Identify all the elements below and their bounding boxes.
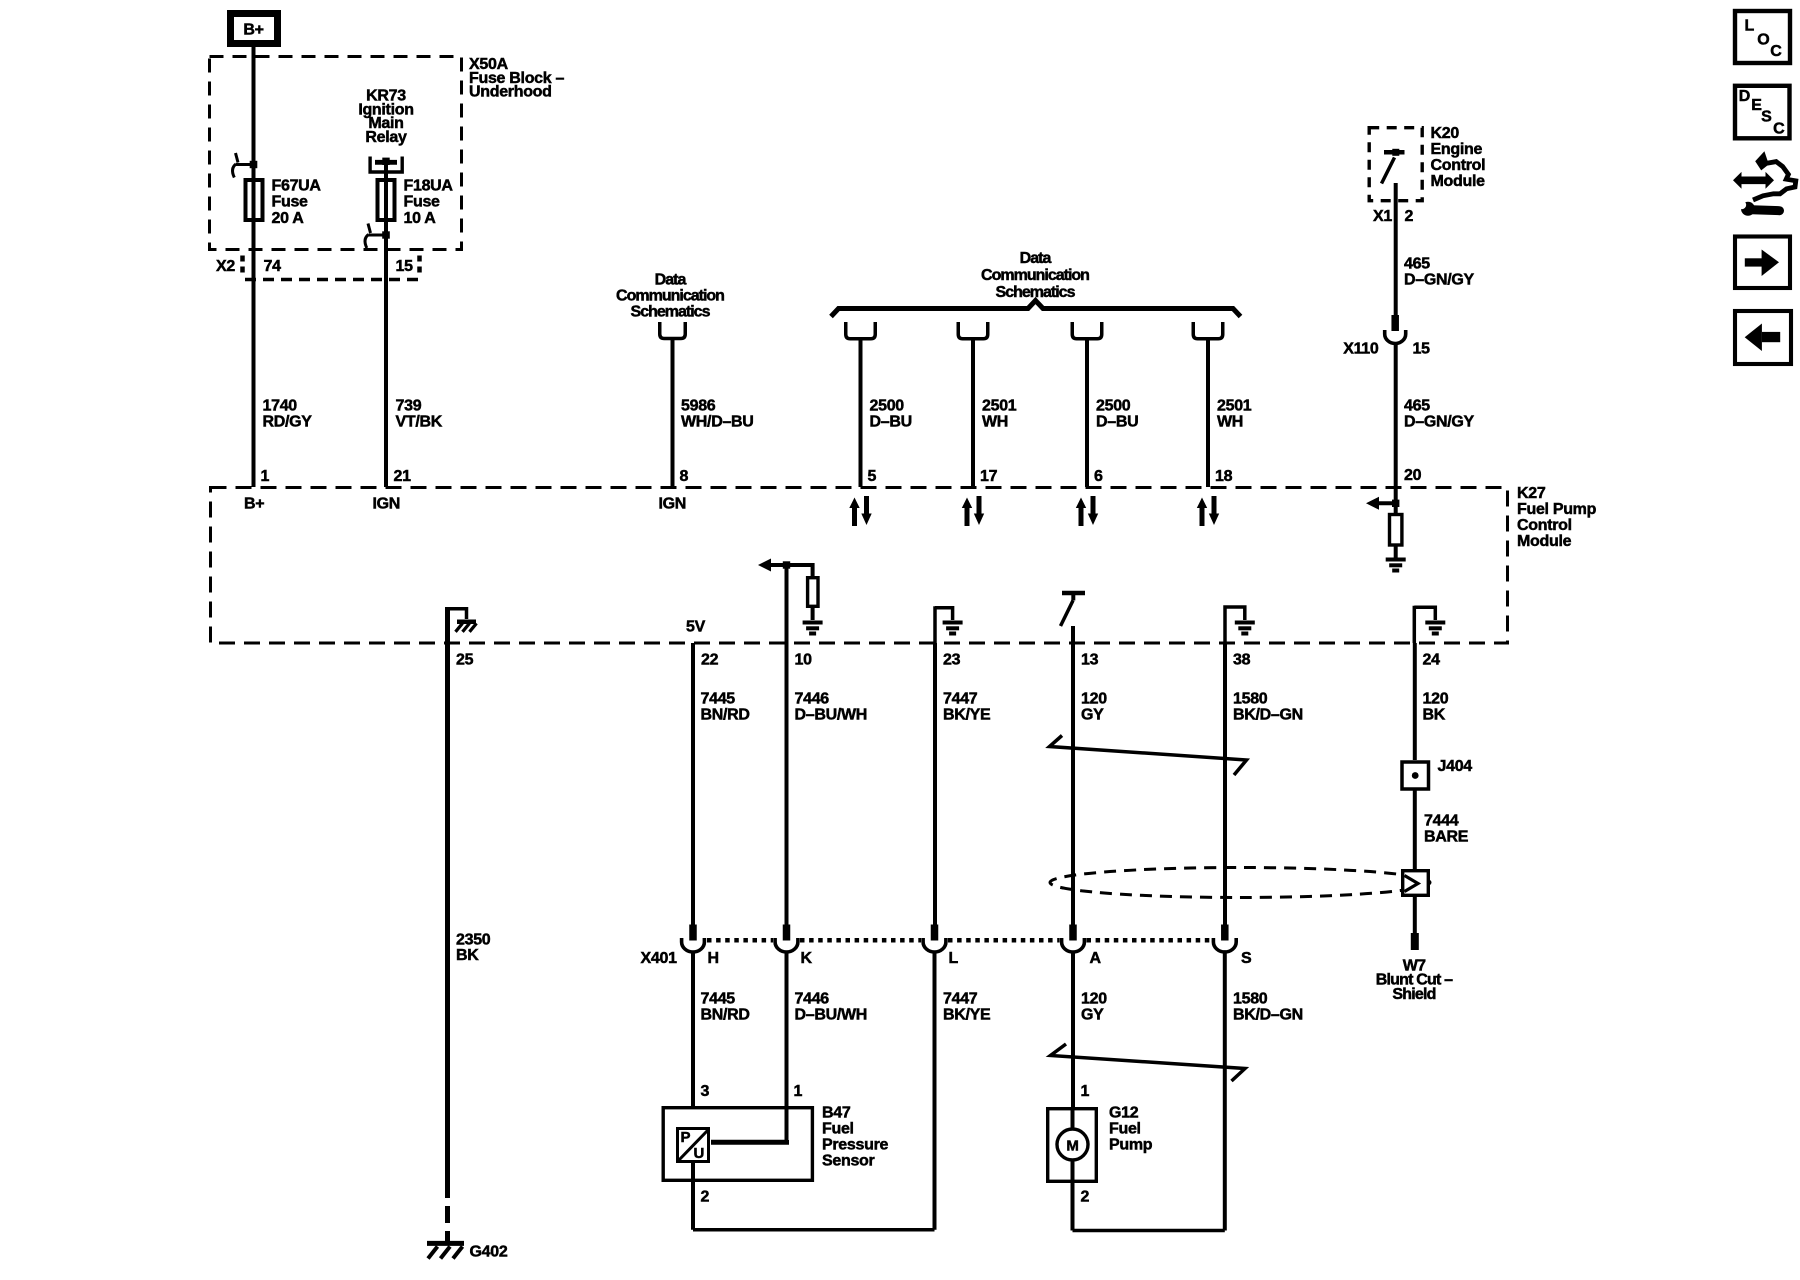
svg-text:WH: WH [982,413,1008,430]
svg-text:U: U [694,1145,705,1162]
svg-text:7444: 7444 [1424,813,1459,830]
svg-text:Module: Module [1431,173,1486,190]
svg-text:K27: K27 [1517,485,1546,502]
svg-text:X1: X1 [1373,208,1392,225]
svg-text:B+: B+ [244,496,264,513]
fuse F67UA 20A [246,180,263,220]
wire 5986 WH/D-BU [671,339,675,488]
svg-text:2350: 2350 [456,932,491,949]
svg-text:2500: 2500 [1096,397,1131,414]
svg-text:BK/YE: BK/YE [943,706,991,723]
motor symbol M [1057,1129,1088,1160]
svg-text:1740: 1740 [263,397,298,414]
module K20 dashed box [1369,128,1422,201]
svg-text:120: 120 [1081,690,1107,707]
svg-text:Communication: Communication [616,288,724,305]
wire sensor pin 2 [691,1163,695,1230]
connector X401 dotted line [707,938,773,943]
wire 7446 D-BU/WH lower [785,951,789,1142]
svg-text:7447: 7447 [943,990,978,1007]
module K27 dashed box [211,488,1508,644]
connector X401 cavity H socket [682,938,705,952]
svg-text:Pressure: Pressure [822,1137,888,1154]
svg-text:2501: 2501 [1217,397,1252,414]
svg-text:2: 2 [701,1188,710,1205]
svg-text:8: 8 [680,468,689,485]
svg-text:WH/D–BU: WH/D–BU [681,413,754,430]
bidirectional arrows at pin 17 [962,498,972,527]
battery feed B+ terminal box [231,14,278,44]
svg-text:X2: X2 [216,258,235,275]
internal 5V arrow at pin 10 [758,559,771,572]
junction dot at pin 10 internal [783,561,790,568]
svg-text:WH: WH [1217,413,1243,430]
svg-text:B+: B+ [243,22,263,39]
shield ellipse (drain wire) [1050,868,1430,898]
wire 7445 BN/RD upper [691,643,695,925]
wire resistor to ground at pin 10 [811,607,815,621]
svg-text:15: 15 [1413,341,1431,358]
wire 7446 D-BU/WH upper [785,565,789,925]
svg-text:7446: 7446 [795,690,830,707]
connector to data schematics #4 [1193,322,1223,339]
internal resistor at pin 20 [1390,515,1402,546]
wire bottom B47 to 7447 [693,1228,935,1232]
svg-text:38: 38 [1233,651,1251,668]
svg-text:D–GN/GY: D–GN/GY [1404,272,1475,289]
svg-text:Fuel Pump: Fuel Pump [1517,501,1597,518]
connector X401 cavity L pin [931,925,939,941]
svg-text:P: P [681,1129,691,1146]
connector to data schematics #2 [958,322,988,339]
svg-text:B47: B47 [822,1105,851,1122]
bidirectional arrows at pin 5 [849,498,859,527]
svg-text:Underhood: Underhood [469,84,552,101]
svg-text:17: 17 [980,468,998,485]
svg-text:739: 739 [396,397,422,414]
svg-text:D–BU/WH: D–BU/WH [795,706,868,723]
svg-text:L: L [949,950,959,967]
icon box LOC [1735,11,1790,63]
svg-text:BN/RD: BN/RD [701,1006,750,1023]
svg-text:A: A [1090,950,1102,967]
svg-text:10 A: 10 A [404,210,437,227]
earth ground at pin 23 [943,621,963,625]
wire resistor to ground (K27) [1394,545,1398,558]
svg-text:S: S [1761,108,1772,125]
wire B+ feed (circuit 1740) [252,47,256,487]
icon box next arrow [1735,237,1790,289]
svg-text:18: 18 [1215,468,1233,485]
svg-text:7447: 7447 [943,690,978,707]
connector X2 bottom dashed line [245,278,420,282]
switch contact inside K20 [1384,150,1405,155]
internal wire pin1 to sensor [711,1140,787,1142]
svg-text:Fuse: Fuse [404,194,441,211]
svg-text:VT/BK: VT/BK [396,413,443,430]
connector X401 cavity H pin [689,925,697,941]
wire 465 D-GN/GY lower [1394,343,1398,514]
shield termination box [1403,871,1429,896]
svg-text:C: C [1770,43,1782,60]
wire relay to fuse F18UA (circuit 739) [384,162,388,487]
svg-text:6: 6 [1094,468,1103,485]
connector X401 cavity K socket [775,938,798,952]
junction dot at pin 20 internal [1392,500,1399,507]
svg-text:D–GN/GY: D–GN/GY [1404,413,1475,430]
svg-text:Schematics: Schematics [631,304,711,321]
svg-text:BK/D–GN: BK/D–GN [1233,1006,1303,1023]
svg-text:7445: 7445 [701,990,736,1007]
svg-text:1580: 1580 [1233,690,1268,707]
icon swap double arrow [1733,172,1774,189]
svg-text:O: O [1757,31,1769,48]
icon curved arrow [1753,162,1796,200]
svg-text:15: 15 [396,258,414,275]
svg-text:C: C [1773,120,1785,137]
svg-text:D–BU/WH: D–BU/WH [795,1006,868,1023]
earth ground below resistor (K27) [1386,558,1406,562]
svg-text:S: S [1241,950,1252,967]
splice J404 [1402,762,1429,789]
svg-text:BN/RD: BN/RD [701,706,750,723]
fuse block X50A dashed box [210,57,462,250]
internal elbow at pin 23 [935,606,953,643]
svg-text:F18UA: F18UA [404,178,454,195]
connector X401 cavity A pin [1069,925,1077,941]
svg-text:10: 10 [795,651,813,668]
twisted pair slash upper [1050,736,1247,776]
svg-text:Sensor: Sensor [822,1153,875,1170]
svg-text:Fuel: Fuel [1109,1121,1141,1138]
svg-text:Engine: Engine [1431,141,1483,158]
svg-text:D–BU: D–BU [870,413,912,430]
svg-text:120: 120 [1423,690,1449,707]
svg-text:120: 120 [1081,990,1107,1007]
svg-text:2: 2 [1081,1188,1090,1205]
svg-text:RD/GY: RD/GY [263,413,313,430]
wire 7447 BK/YE lower [933,951,937,1230]
connector X401 cavity S pin [1221,925,1229,941]
svg-text:1: 1 [261,468,270,485]
relay KR73 contact [370,157,402,173]
wire 2501 WH #2 [971,340,975,487]
svg-text:F67UA: F67UA [272,178,322,195]
wire G12 pin 2 [1071,1160,1075,1231]
internal resistor at pin 10 [808,578,818,607]
svg-text:BARE: BARE [1424,828,1469,845]
internal elbow at pin 24 [1414,606,1435,643]
svg-text:BK: BK [456,947,479,964]
wire 2350 BK [445,607,450,1181]
wire 465 D-GN/GY upper [1394,183,1398,315]
svg-text:1580: 1580 [1233,990,1268,1007]
icon box DESC [1735,86,1790,139]
svg-text:D: D [1739,88,1751,105]
connector to data schematics (left) [660,322,686,339]
wire 120 BK (pin 24 to J404) [1413,643,1417,760]
svg-text:D–BU: D–BU [1096,413,1138,430]
wire 120 GY lower [1071,951,1075,1107]
clip junction below fuse F18UA [382,231,390,238]
svg-text:20 A: 20 A [272,210,305,227]
svg-text:BK: BK [1423,706,1446,723]
svg-text:5: 5 [868,468,877,485]
brace over data communication wires [831,301,1241,317]
svg-text:K: K [801,950,813,967]
wire 2350 BK dashed tail [445,1181,450,1241]
connector to data schematics #1 [846,322,876,339]
svg-text:Module: Module [1517,533,1572,550]
earth ground at pin 24 [1425,621,1445,625]
svg-text:BK/D–GN: BK/D–GN [1233,706,1303,723]
svg-text:13: 13 [1081,651,1099,668]
svg-text:20: 20 [1404,467,1422,484]
internal wire at pin 25 [448,607,467,643]
wire 7447 BK/YE upper [933,643,937,925]
svg-text:Control: Control [1431,157,1486,174]
twisted pair slash lower [1051,1044,1246,1081]
svg-text:IGN: IGN [373,496,401,513]
svg-text:G402: G402 [470,1244,508,1261]
svg-text:2: 2 [1405,208,1414,225]
svg-text:1: 1 [794,1083,803,1100]
connector X401 cavity L socket [923,938,946,952]
svg-text:X401: X401 [641,950,678,967]
svg-text:H: H [708,950,719,967]
bidirectional arrows at pin 6 [1076,498,1086,527]
svg-text:Communication: Communication [981,267,1089,284]
svg-text:Shield: Shield [1392,986,1435,1003]
internal arrow at pin 20 [1366,497,1379,510]
component G12 box [1048,1109,1097,1182]
connector X401 cavity K pin [783,925,791,941]
svg-text:Control: Control [1517,517,1572,534]
icon box back arrow [1735,311,1791,364]
internal wire G12 pin1 [1071,1107,1075,1129]
svg-text:74: 74 [264,258,282,275]
blunt cut terminal W7 [1411,933,1419,950]
svg-text:Relay: Relay [365,129,407,146]
svg-text:BK/YE: BK/YE [943,1006,991,1023]
svg-text:3: 3 [701,1083,710,1100]
svg-text:2500: 2500 [870,397,905,414]
wire 2501 WH #4 [1206,340,1210,487]
svg-text:2501: 2501 [982,397,1017,414]
svg-text:465: 465 [1404,255,1430,272]
earth ground at pin 10 [803,621,823,625]
svg-text:G12: G12 [1109,1105,1139,1122]
svg-text:Data: Data [1020,250,1052,267]
svg-text:J404: J404 [1438,758,1473,775]
chassis ground at pin 25 [457,620,476,625]
svg-text:GY: GY [1081,706,1104,723]
svg-text:Fuse: Fuse [272,194,309,211]
inline connector X110 pin [1391,315,1399,331]
svg-text:Fuel: Fuel [822,1121,854,1138]
icon wrench [1741,202,1755,216]
connector X2 left tick [240,256,245,276]
connector X2 right tick [417,256,422,276]
svg-text:Data: Data [655,272,687,289]
svg-text:21: 21 [394,468,412,485]
inline connector X110 socket [1385,330,1406,344]
svg-text:22: 22 [701,651,719,668]
internal switch at pin 13 [1062,591,1085,596]
svg-text:Pump: Pump [1109,1137,1153,1154]
svg-text:7445: 7445 [701,690,736,707]
svg-text:7446: 7446 [795,990,830,1007]
svg-text:25: 25 [456,651,474,668]
wire 1580 BK/D-GN upper [1223,643,1227,925]
internal elbow at pin 38 [1225,605,1245,643]
earth ground at pin 38 [1235,621,1255,625]
svg-text:IGN: IGN [659,496,687,513]
ground G402 chassis symbol [427,1241,464,1246]
internal elbow to resistor at pin 10 [787,565,813,577]
fuse F18UA 10A [378,180,395,220]
svg-text:K20: K20 [1431,125,1460,142]
wire bottom G12 to 1580 [1073,1229,1225,1233]
svg-text:465: 465 [1404,397,1430,414]
wire 1580 BK/D-GN lower [1223,951,1227,1231]
wire 7444 BARE [1413,789,1417,869]
connector X401 cavity S socket [1213,938,1236,952]
svg-text:GY: GY [1081,1006,1104,1023]
svg-text:X110: X110 [1343,341,1379,358]
wire 7445 BN/RD lower [691,951,695,1106]
bidirectional arrows at pin 18 [1197,498,1207,527]
wire shield to blunt cut [1413,895,1417,933]
svg-text:1: 1 [1081,1083,1090,1100]
component B47 box [663,1108,812,1181]
wire 120 GY upper [1071,626,1075,925]
sensor element P/U [678,1129,709,1162]
svg-text:5V: 5V [686,618,706,635]
wire 2500 D-BU #1 [859,340,863,487]
svg-text:23: 23 [943,651,961,668]
svg-text:5986: 5986 [681,397,716,414]
connector to data schematics #3 [1072,322,1102,339]
connector X401 cavity A socket [1062,938,1085,952]
svg-text:L: L [1745,18,1755,35]
svg-text:M: M [1066,1137,1078,1154]
svg-text:24: 24 [1423,651,1441,668]
wire 2500 D-BU #3 [1085,340,1089,487]
clip junction at fuse F67UA [250,161,258,168]
